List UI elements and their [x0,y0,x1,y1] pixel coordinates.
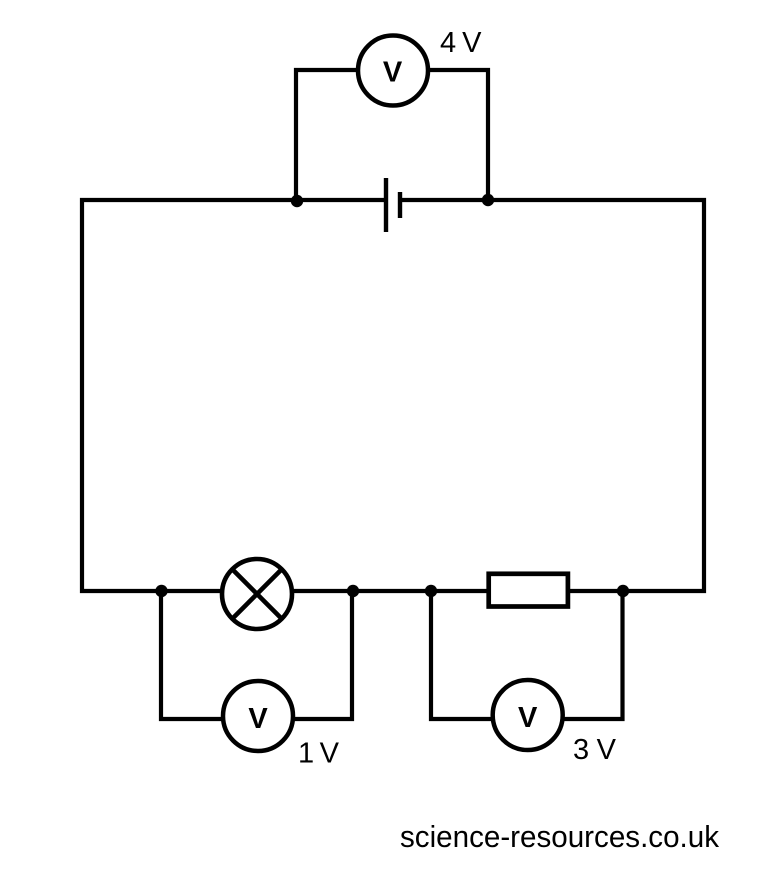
svg-text:V: V [518,702,538,734]
node junction left of lamp [155,585,167,597]
resistor R1 [489,574,568,607]
svg-text:3 V: 3 V [573,734,617,766]
wire top voltmeter branch [296,70,488,202]
node junction top-left of battery [291,195,303,207]
battery cell short plate [398,192,402,218]
battery cell long plate [384,178,388,232]
lamp L1 [222,559,292,629]
node junction left of resistor [425,585,437,597]
svg-text:4 V: 4 V [440,27,482,59]
node junction right of lamp [347,585,359,597]
voltmeter V2 top circle [358,36,428,106]
wire main loop (left, top with battery gap, right, bottom) [82,200,704,591]
wire bottom-right voltmeter loop [431,589,623,719]
svg-text:science-resources.co.uk: science-resources.co.uk [400,820,720,854]
svg-text:V: V [383,57,403,89]
svg-text:1 V: 1 V [298,738,340,770]
node junction right of resistor [617,585,629,597]
wire bottom-left voltmeter loop [161,589,352,719]
svg-text:V: V [248,703,268,735]
node junction top-right of battery [482,194,494,206]
voltmeter V1 bottom-left circle [223,681,293,751]
voltmeter V3 bottom-right circle [493,680,563,750]
